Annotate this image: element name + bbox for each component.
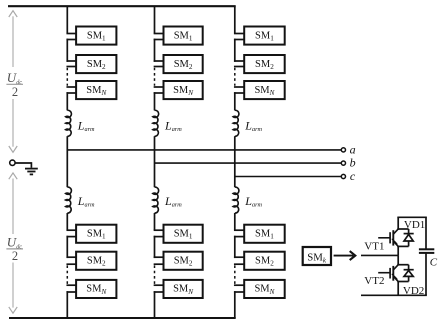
wire: link upper SM1-SM2 phase B xyxy=(154,39,156,62)
wire: pin stub out of upper SM2 phase A xyxy=(66,66,76,68)
svg-text:Larm: Larm xyxy=(164,194,182,209)
wire: pin stub out of upper SM1 phase A xyxy=(66,39,76,41)
wire: gate lead xyxy=(378,272,390,274)
svg-text:C: C xyxy=(430,256,438,268)
wire: phase C midpoint vertical (upper coil to lower coil) xyxy=(234,136,236,187)
svg-text:VD1: VD1 xyxy=(404,219,425,231)
wire: pin stub into lower SM2 phase B xyxy=(154,256,164,258)
wire: diode cathode stub xyxy=(408,265,410,270)
svg-text:VT2: VT2 xyxy=(364,275,384,287)
wire: diode loop top xyxy=(397,228,408,230)
submodule SM1 lower arm phase B xyxy=(164,225,203,243)
wire: collector diagonal xyxy=(393,264,398,270)
submodule SM1 lower arm phase A xyxy=(76,225,116,243)
wire: pin stub into lower SM1 phase C xyxy=(234,229,244,231)
wire: pin stub out of upper SM1 phase B xyxy=(154,39,164,41)
wire: dashed continuation lower arm phase A xyxy=(66,265,68,284)
wire: phase c output line xyxy=(235,176,343,178)
wire: emitter vertical xyxy=(397,246,399,255)
inductor Larm lower arm phase A xyxy=(66,187,72,213)
diode cathode bar xyxy=(404,269,414,271)
inductor Larm upper arm phase B xyxy=(153,110,159,136)
submodule SMN upper arm phase C xyxy=(244,81,285,99)
submodule SM2 upper arm phase B xyxy=(164,55,203,73)
wire: collector vertical xyxy=(397,255,399,265)
svg-text:VT1: VT1 xyxy=(364,241,384,253)
wire: link lower SM1-SM2 phase C xyxy=(234,236,236,258)
wire: pin stub into upper SM2 phase A xyxy=(66,60,76,62)
submodule SM2 lower arm phase C xyxy=(244,252,285,270)
wire: link lower SM1-SM2 phase A xyxy=(66,236,68,258)
wire: collector vertical xyxy=(397,217,399,230)
submodule SM2 lower arm phase B xyxy=(164,252,203,270)
wire: collector diagonal xyxy=(393,229,398,235)
transistor VT1 with diode VD1 xyxy=(378,217,414,255)
annotation: upper Udc/2 dimension arrow xyxy=(9,11,17,153)
node b: AC terminal circle xyxy=(341,161,345,165)
IGBT gate bar xyxy=(389,232,391,243)
wire: lower coil to lower SM1 phase B xyxy=(154,213,156,230)
svg-text:c: c xyxy=(350,169,356,183)
wire: pin stub out of lower SM1 phase B xyxy=(154,236,164,238)
submodule SM2 upper arm phase A xyxy=(76,55,116,73)
label: lower Udc/2 xyxy=(6,235,23,264)
svg-text:2: 2 xyxy=(12,85,18,99)
wire: diode cathode stub xyxy=(408,229,410,234)
wire: pin stub out of upper SM1 phase C xyxy=(234,39,244,41)
wire: pin stub into lower SM2 phase A xyxy=(66,256,76,258)
diode triangle xyxy=(404,234,413,241)
wire: upper SMN to arm inductor phase A xyxy=(66,92,68,110)
ground xyxy=(25,169,38,175)
wire: pin stub into upper SM1 phase C xyxy=(234,33,244,35)
label: upper Udc/2 xyxy=(6,70,23,99)
wire: pin stub into lower SM1 phase A xyxy=(66,229,76,231)
svg-text:a: a xyxy=(350,142,356,156)
submodule SMN upper arm phase A xyxy=(76,81,116,99)
wire: phase b output line xyxy=(155,162,344,164)
wire: emitter diagonal with arrow xyxy=(393,241,398,247)
wire: pin stub out of lower SMN phase B xyxy=(154,291,164,293)
wire: dashed continuation lower arm phase C xyxy=(234,265,236,284)
submodule SM1 upper arm phase C xyxy=(244,27,285,45)
wire: pin stub into upper SMN phase C xyxy=(234,86,244,88)
submodule SMN lower arm phase B xyxy=(164,280,203,298)
wire: lower coil to lower SM1 phase C xyxy=(234,213,236,230)
node c: AC terminal circle xyxy=(341,174,345,178)
wire: midpoint terminal to ground xyxy=(15,162,31,164)
wire: pin stub out of lower SM2 phase B xyxy=(154,263,164,265)
wire: dashed continuation lower arm phase B xyxy=(154,265,156,284)
submodule SMN upper arm phase B xyxy=(164,81,203,99)
wire: phase a output line xyxy=(67,149,343,151)
svg-text:Udc: Udc xyxy=(7,70,22,86)
wire: lower SMN to DC- rail phase C xyxy=(234,291,236,318)
wire: lower SMN to DC- rail phase A xyxy=(66,291,68,318)
IGBT body bar xyxy=(392,266,394,281)
submodule SM2 lower arm phase A xyxy=(76,252,116,270)
wire: phase B upper bus from DC+ rail to SM1 xyxy=(154,6,156,33)
annotation: arrow from SMk to detail xyxy=(334,251,356,260)
wire: phase B midpoint vertical (upper coil to lower coil) xyxy=(154,136,156,187)
wire: pin stub into upper SM2 phase B xyxy=(154,60,164,62)
inductor Larm upper arm phase C xyxy=(233,110,239,136)
wire: phase A upper bus from DC+ rail to SM1 xyxy=(66,6,68,33)
submodule SMk reference box xyxy=(303,247,331,265)
wire: pin stub out of lower SMN phase A xyxy=(66,291,76,293)
wire: diode anode stub xyxy=(408,276,410,281)
submodule SMN lower arm phase A xyxy=(76,280,116,298)
wire: pin stub into upper SM1 phase A xyxy=(66,33,76,35)
wire: gate lead xyxy=(378,237,390,239)
diode triangle xyxy=(404,271,413,277)
wire: positive DC rail (top bus) xyxy=(8,5,236,7)
wire: pin stub out of upper SMN phase A xyxy=(66,92,76,94)
wire: pin stub into lower SM1 phase B xyxy=(154,229,164,231)
node a: AC terminal circle xyxy=(341,148,345,152)
wire: pin stub out of lower SM1 phase C xyxy=(234,236,244,238)
wire: pin stub out of upper SMN phase C xyxy=(234,92,244,94)
wire: detail AC input line xyxy=(361,254,398,256)
submodule SM1 lower arm phase C xyxy=(244,225,285,243)
IGBT body bar xyxy=(392,230,394,245)
wire: pin stub into lower SMN phase C xyxy=(234,284,244,286)
wire: dashed continuation upper arm phase A xyxy=(66,68,68,86)
wire: pin stub out of lower SM2 phase C xyxy=(234,263,244,265)
wire: negative DC rail (bottom bus) xyxy=(9,317,236,319)
wire: emitter diagonal with arrow xyxy=(393,276,398,282)
wire: upper SMN to arm inductor phase C xyxy=(234,92,236,110)
capacitor C branch lower wire xyxy=(425,253,427,295)
wire: diode loop bottom xyxy=(397,281,408,283)
wire: detail bottom rail xyxy=(361,294,427,296)
wire: pin stub into upper SM1 phase B xyxy=(154,33,164,35)
capacitor C plates xyxy=(419,249,434,253)
wire: detail bridge top rail xyxy=(397,216,427,218)
svg-text:Larm: Larm xyxy=(164,118,182,133)
svg-text:Larm: Larm xyxy=(244,194,262,209)
wire: pin stub into upper SMN phase B xyxy=(154,86,164,88)
wire: pin stub into lower SMN phase A xyxy=(66,284,76,286)
wire: pin stub out of lower SM1 phase A xyxy=(66,236,76,238)
svg-text:Udc: Udc xyxy=(7,235,22,251)
svg-text:Larm: Larm xyxy=(77,118,95,133)
wire: emitter vertical xyxy=(397,282,399,296)
wire: lower SMN to DC- rail phase B xyxy=(154,291,156,318)
node: DC midpoint terminal circle xyxy=(10,160,15,165)
capacitor C branch upper wire xyxy=(425,217,427,249)
wire: link lower SM1-SM2 phase B xyxy=(154,236,156,258)
wire: pin stub into lower SMN phase B xyxy=(154,284,164,286)
submodule SMN lower arm phase C xyxy=(244,280,285,298)
inductor Larm upper arm phase A xyxy=(66,110,72,136)
inductor Larm lower arm phase B xyxy=(153,187,159,213)
wire: pin stub out of upper SM2 phase C xyxy=(234,66,244,68)
wire: link upper SM1-SM2 phase C xyxy=(234,39,236,62)
wire: dashed continuation upper arm phase B xyxy=(154,68,156,86)
submodule SM2 upper arm phase C xyxy=(244,55,285,73)
wire: dashed continuation upper arm phase C xyxy=(234,68,236,86)
wire: pin stub out of upper SM2 phase B xyxy=(154,66,164,68)
diode cathode bar xyxy=(404,233,414,235)
submodule SM1 upper arm phase A xyxy=(76,27,116,45)
transistor VT2 with diode VD2 xyxy=(378,255,414,295)
wire: phase C upper bus from DC+ rail to SM1 xyxy=(234,6,236,33)
svg-text:Larm: Larm xyxy=(77,194,95,209)
wire: diode loop top xyxy=(397,264,408,266)
wire: pin stub out of upper SMN phase B xyxy=(154,92,164,94)
wire: upper SMN to arm inductor phase B xyxy=(154,92,156,110)
inductor Larm lower arm phase C xyxy=(233,187,239,213)
wire: pin stub out of lower SMN phase C xyxy=(234,291,244,293)
wire: diode loop bottom xyxy=(397,245,408,247)
wire: pin stub into lower SM2 phase C xyxy=(234,256,244,258)
annotation: lower Udc/2 dimension arrow xyxy=(9,173,17,313)
wire: phase A midpoint vertical (upper coil to lower coil) xyxy=(66,136,68,187)
wire: diode anode stub xyxy=(408,241,410,246)
svg-text:b: b xyxy=(350,156,356,170)
svg-text:VD2: VD2 xyxy=(403,285,424,297)
svg-text:Larm: Larm xyxy=(244,118,262,133)
wire: lower coil to lower SM1 phase A xyxy=(66,213,68,230)
svg-text:2: 2 xyxy=(12,249,18,263)
wire: pin stub into upper SMN phase A xyxy=(66,86,76,88)
IGBT gate bar xyxy=(389,268,391,279)
wire: link upper SM1-SM2 phase A xyxy=(66,39,68,62)
submodule SM1 upper arm phase B xyxy=(164,27,203,45)
wire: pin stub out of lower SM2 phase A xyxy=(66,263,76,265)
wire: pin stub into upper SM2 phase C xyxy=(234,60,244,62)
